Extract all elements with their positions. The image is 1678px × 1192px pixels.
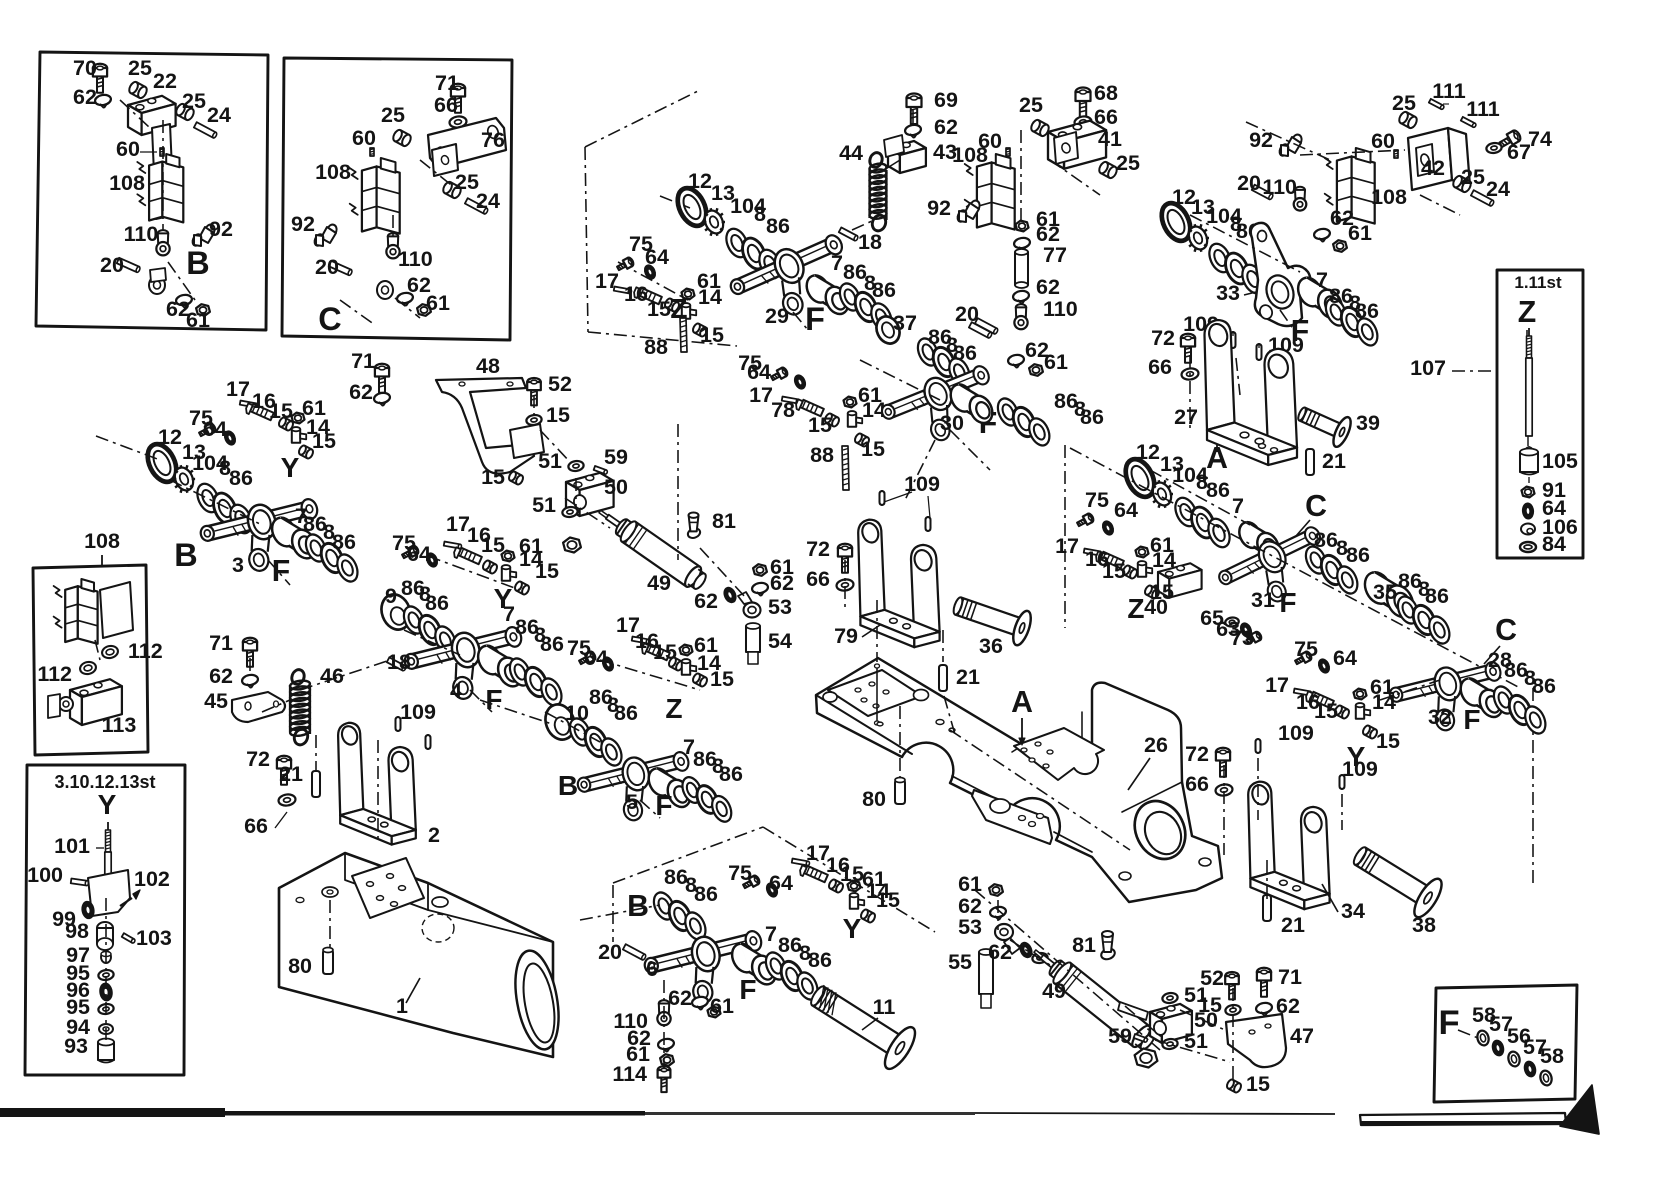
- seal ring: [1539, 1069, 1554, 1086]
- banjo 81: [687, 513, 702, 540]
- bush 15b: [514, 580, 531, 595]
- svg-text:110: 110: [398, 247, 433, 271]
- washer 66b: [1215, 783, 1233, 796]
- link 53: [995, 924, 1013, 940]
- ring 37: [872, 313, 903, 348]
- pin 18: [839, 227, 859, 241]
- svg-text:111: 111: [1432, 79, 1466, 103]
- svg-text:64: 64: [584, 646, 608, 670]
- needle 101: [107, 822, 109, 830]
- svg-text:62: 62: [209, 664, 233, 688]
- elbow 92: [1278, 133, 1303, 157]
- star 13: [1149, 480, 1174, 509]
- U-clamp on 76: [432, 144, 458, 176]
- washer 62: [751, 582, 768, 595]
- svg-text:2: 2: [428, 823, 440, 847]
- washer stack 104-8-86: [722, 225, 752, 260]
- bush 15: [824, 412, 841, 427]
- plate 26 front edge segments: [952, 776, 1012, 807]
- inset box 3.10.12.13st bottom-left: [25, 765, 185, 1075]
- svg-text:21: 21: [956, 665, 980, 689]
- svg-text:64: 64: [1333, 646, 1357, 670]
- clevis 110: [158, 230, 168, 237]
- svg-text:78: 78: [771, 398, 795, 422]
- svg-text:37: 37: [893, 311, 917, 335]
- screw 52: [527, 378, 541, 405]
- bush 15: [482, 559, 499, 574]
- block 40: [1158, 563, 1202, 597]
- block 50: [566, 473, 614, 516]
- washer 51b: [562, 506, 579, 518]
- svg-text:7: 7: [1232, 494, 1244, 518]
- svg-text:17: 17: [595, 269, 619, 293]
- svg-text:74: 74: [1528, 127, 1552, 151]
- needle 107: [1528, 328, 1530, 336]
- inset box C top-left-2: [282, 58, 512, 340]
- svg-text:51: 51: [532, 493, 556, 517]
- svg-text:18: 18: [858, 230, 882, 254]
- svg-text:F: F: [739, 974, 756, 1005]
- rocker arm 29: [726, 232, 850, 322]
- svg-text:54: 54: [768, 629, 792, 653]
- subplate A on 26: [1014, 728, 1104, 780]
- bracket 2: [338, 723, 416, 845]
- svg-text:71: 71: [351, 349, 375, 373]
- svg-text:15: 15: [546, 403, 570, 427]
- svg-text:12: 12: [1136, 440, 1160, 464]
- svg-text:86: 86: [766, 214, 790, 238]
- base 1: [279, 853, 553, 1057]
- screw 60: [1006, 148, 1010, 156]
- block 43: [888, 141, 926, 173]
- screw 74: [1498, 129, 1522, 150]
- washer 64: [1101, 520, 1115, 536]
- inset box F bottom-right: [1434, 985, 1577, 1102]
- svg-text:86: 86: [808, 948, 832, 972]
- svg-text:7: 7: [765, 922, 777, 946]
- svg-text:24: 24: [207, 103, 231, 127]
- svg-text:61: 61: [710, 994, 734, 1018]
- stack 104: [1171, 494, 1201, 529]
- elbow 92: [956, 199, 981, 223]
- svg-text:42: 42: [1421, 156, 1445, 180]
- washer stack 86-8-86: [836, 280, 864, 313]
- svg-text:86: 86: [1080, 405, 1104, 429]
- svg-text:59: 59: [1108, 1024, 1132, 1048]
- svg-text:86: 86: [1314, 528, 1338, 552]
- svg-text:71: 71: [1278, 965, 1302, 989]
- screw 60: [160, 148, 164, 156]
- washer 62c: [396, 292, 413, 305]
- svg-text:51: 51: [538, 449, 562, 473]
- arm 31: [1213, 524, 1329, 610]
- subplate topleft on 26: [828, 670, 922, 716]
- svg-text:76: 76: [481, 128, 505, 152]
- screw 71: [243, 638, 257, 667]
- shaft 11: [802, 973, 921, 1073]
- pin 17: [782, 397, 800, 404]
- svg-text:1: 1: [396, 994, 408, 1018]
- cyl 77: [1015, 252, 1028, 285]
- svg-text:103: 103: [136, 926, 172, 950]
- svg-text:41: 41: [1098, 127, 1122, 151]
- 65 63 73: [1225, 617, 1240, 628]
- svg-text:Y: Y: [98, 789, 117, 820]
- stack 28-86-8-86: [1490, 683, 1518, 716]
- svg-text:112: 112: [128, 639, 163, 663]
- part 97: [101, 951, 111, 963]
- nut 61: [753, 564, 767, 576]
- svg-text:80: 80: [862, 787, 886, 811]
- svg-text:66: 66: [1185, 772, 1209, 796]
- svg-text:73: 73: [1230, 626, 1254, 650]
- part 98: [97, 922, 113, 934]
- svg-text:11: 11: [873, 995, 896, 1019]
- washer 96: [99, 983, 112, 1001]
- washer 62: [904, 124, 921, 137]
- ring 12: [142, 440, 182, 487]
- screw 75: [578, 651, 597, 667]
- bushing 25c: [391, 128, 412, 147]
- block 42: [1408, 128, 1452, 190]
- rod 88b: [842, 446, 849, 490]
- washer 64: [1522, 503, 1533, 519]
- svg-text:62: 62: [1036, 275, 1060, 299]
- screw 69: [907, 94, 922, 125]
- svg-text:12: 12: [158, 425, 182, 449]
- svg-text:A: A: [1011, 686, 1033, 719]
- pins 109: [396, 717, 401, 731]
- nut 61: [196, 304, 210, 316]
- washer 66: [449, 115, 467, 128]
- svg-text:64: 64: [203, 417, 227, 441]
- boss bore ring: [1125, 793, 1194, 868]
- bracket 79: [858, 520, 939, 648]
- svg-text:61: 61: [1348, 221, 1372, 245]
- pin 17: [1084, 549, 1102, 556]
- svg-text:86: 86: [1425, 584, 1449, 608]
- svg-text:49: 49: [647, 571, 671, 595]
- svg-text:17: 17: [1265, 673, 1289, 697]
- svg-text:Z: Z: [1518, 296, 1536, 329]
- washer 99: [81, 901, 94, 919]
- pin 18: [387, 657, 407, 671]
- svg-text:38: 38: [1412, 913, 1436, 937]
- washer 62: [94, 94, 111, 107]
- svg-text:58: 58: [1540, 1044, 1564, 1068]
- stack 86b: [762, 949, 790, 982]
- svg-text:62: 62: [349, 380, 373, 404]
- svg-text:Z: Z: [665, 693, 682, 724]
- roller 7: [644, 765, 675, 800]
- link 53: [744, 603, 761, 618]
- stack 104-8-86: [1205, 240, 1235, 275]
- washer 95b: [98, 1003, 115, 1015]
- arm 5: [572, 739, 692, 828]
- washer 62: [1013, 237, 1030, 250]
- svg-text:15: 15: [647, 297, 671, 321]
- svg-text:20: 20: [100, 253, 124, 277]
- svg-text:55: 55: [948, 950, 972, 974]
- arm 3: [195, 486, 321, 580]
- washer 66: [278, 793, 296, 806]
- bolt 15 under 48 clamp: [508, 470, 525, 485]
- hex nut big: [1135, 1049, 1158, 1068]
- zone dash top middle: [585, 147, 588, 332]
- svg-text:24: 24: [476, 189, 500, 213]
- svg-text:66: 66: [806, 567, 830, 591]
- svg-text:4: 4: [450, 679, 462, 703]
- washer 62b: [1018, 941, 1033, 959]
- svg-text:14: 14: [1372, 690, 1396, 714]
- cluster Y right: [1294, 651, 1313, 667]
- cyl 49b: [1027, 941, 1159, 1054]
- tpiece 14: [1138, 561, 1152, 577]
- washer 67: [1486, 142, 1503, 154]
- tpiece 14: [682, 659, 696, 675]
- clevis 110: [1016, 304, 1026, 311]
- boss front line: [1122, 782, 1182, 812]
- bush 25: [1397, 110, 1418, 129]
- svg-text:92: 92: [1249, 128, 1273, 152]
- svg-text:F: F: [805, 301, 825, 337]
- svg-text:69: 69: [934, 88, 958, 112]
- svg-text:71: 71: [209, 631, 233, 655]
- svg-text:B: B: [174, 537, 197, 573]
- screw 71: [375, 364, 389, 393]
- svg-text:110: 110: [1262, 175, 1297, 199]
- spring 46: [290, 668, 306, 686]
- pin 24b: [465, 198, 489, 214]
- washer pair: [1032, 952, 1049, 964]
- bush 25b: [1097, 160, 1118, 179]
- bush 15: [664, 297, 681, 312]
- clevis 110b: [388, 233, 398, 240]
- washer 51b: [1162, 1038, 1179, 1050]
- bushing 25b: [174, 102, 195, 121]
- svg-text:101: 101: [54, 834, 90, 858]
- svg-text:81: 81: [1072, 933, 1096, 957]
- svg-text:88: 88: [810, 443, 834, 467]
- svg-text:72: 72: [806, 537, 830, 561]
- dash 42 axis: [1246, 122, 1330, 160]
- washer 15: [1225, 1004, 1242, 1016]
- valve 108: [965, 154, 1015, 230]
- svg-text:60: 60: [352, 126, 376, 150]
- bush 15b: [1226, 1078, 1243, 1093]
- cyl 49: [593, 502, 710, 594]
- cup 93: [98, 1042, 114, 1060]
- svg-text:15: 15: [710, 667, 734, 691]
- svg-text:32: 32: [1428, 705, 1452, 729]
- base top plate: [352, 858, 424, 918]
- svg-text:64: 64: [747, 360, 771, 384]
- ring 112a: [101, 644, 119, 659]
- plate 48: [436, 378, 534, 474]
- washer 62: [691, 996, 708, 1009]
- svg-text:21: 21: [1322, 449, 1346, 473]
- svg-text:Y: Y: [494, 583, 513, 614]
- svg-text:64: 64: [1114, 498, 1138, 522]
- elbow 92b: [313, 223, 338, 247]
- washer 64: [601, 656, 615, 672]
- svg-text:F: F: [1463, 704, 1480, 735]
- screw 75: [401, 545, 420, 561]
- pin 17: [632, 637, 650, 644]
- svg-text:75: 75: [1085, 488, 1109, 512]
- svg-text:15: 15: [481, 465, 505, 489]
- svg-text:21: 21: [279, 762, 303, 786]
- screw 72b: [1216, 748, 1230, 777]
- pin 24: [194, 122, 218, 138]
- clamp 16: [794, 398, 823, 419]
- svg-text:29: 29: [765, 304, 789, 328]
- pin 20: [623, 944, 647, 960]
- roller 7: [728, 940, 761, 977]
- svg-text:86: 86: [425, 591, 449, 615]
- nut 61b: [417, 304, 431, 316]
- clamp 16: [632, 286, 661, 307]
- screw 60: [1394, 150, 1398, 158]
- screw 71b: [1257, 968, 1271, 997]
- tpiece 14: [682, 303, 696, 319]
- bush 15: [668, 656, 685, 671]
- stack 86b: [679, 774, 706, 806]
- pin 80: [895, 780, 905, 804]
- svg-text:113: 113: [102, 713, 137, 737]
- roller 7: [1294, 274, 1327, 311]
- bushing 25: [127, 80, 148, 99]
- svg-text:15: 15: [312, 429, 336, 453]
- svg-text:15: 15: [535, 559, 559, 583]
- svg-text:22: 22: [153, 69, 177, 93]
- svg-text:48: 48: [476, 354, 500, 378]
- nut 91: [1522, 487, 1535, 498]
- washer 95a: [98, 969, 115, 981]
- svg-text:66: 66: [434, 93, 458, 117]
- arm 33 - vertical style: [1251, 223, 1311, 326]
- bushing 25d: [441, 180, 462, 199]
- svg-text:98: 98: [65, 919, 89, 943]
- washer 51: [568, 460, 585, 472]
- screw 72: [277, 756, 291, 785]
- svg-text:109: 109: [1278, 721, 1314, 745]
- spring 44: [868, 151, 884, 169]
- svg-text:35: 35: [1373, 580, 1397, 604]
- svg-text:67: 67: [1507, 140, 1531, 164]
- svg-text:80: 80: [288, 954, 312, 978]
- svg-text:66: 66: [244, 814, 268, 838]
- inset box 1.11st right: [1497, 270, 1583, 558]
- svg-text:25: 25: [1392, 91, 1416, 115]
- svg-text:14: 14: [1152, 548, 1176, 572]
- ring 12: [1120, 455, 1160, 502]
- roller 7b: [946, 381, 977, 416]
- dash bottom 47 axis: [1155, 1040, 1230, 1062]
- clamp 16: [452, 546, 481, 567]
- pin 38: [1345, 835, 1446, 921]
- washer 106: [1521, 524, 1535, 535]
- svg-text:109: 109: [400, 700, 436, 724]
- svg-text:Y: Y: [1347, 741, 1366, 772]
- svg-text:81: 81: [712, 509, 736, 533]
- svg-text:61: 61: [186, 308, 210, 332]
- bush 15c: [692, 672, 709, 687]
- svg-text:108: 108: [1371, 185, 1407, 209]
- bracket 27: [1205, 320, 1298, 465]
- svg-text:17: 17: [1055, 534, 1079, 558]
- stack 86: [650, 889, 678, 922]
- washer 84: [1520, 542, 1536, 552]
- plate holes: [936, 720, 944, 725]
- page curl triangle: [1560, 1085, 1599, 1134]
- washer stack2: [914, 335, 942, 368]
- nut 61: [1016, 221, 1029, 232]
- svg-text:61: 61: [426, 291, 450, 315]
- pins 109: [1231, 332, 1236, 348]
- stack 104: [193, 480, 223, 515]
- svg-text:62: 62: [668, 986, 692, 1010]
- svg-text:62: 62: [988, 940, 1012, 964]
- svg-text:31: 31: [1251, 588, 1275, 612]
- washer 62b: [1012, 290, 1029, 303]
- bush 15b: [692, 322, 709, 337]
- svg-text:64: 64: [407, 542, 431, 566]
- washer 10: [541, 700, 580, 743]
- svg-text:15: 15: [1246, 1072, 1270, 1096]
- svg-text:Z: Z: [1127, 593, 1144, 624]
- elbow 92: [191, 223, 216, 247]
- svg-text:62: 62: [73, 85, 97, 109]
- screw 114: [658, 1066, 671, 1092]
- dash zone arm6 left border: [612, 885, 614, 942]
- washer 62: [241, 674, 258, 687]
- svg-text:72: 72: [1151, 326, 1175, 350]
- stack 86: [302, 531, 330, 564]
- roller 35: [1360, 568, 1396, 608]
- ring 112b: [79, 660, 97, 675]
- pin 39: [1293, 398, 1354, 449]
- svg-text:105: 105: [1542, 449, 1578, 473]
- svg-text:86: 86: [1355, 299, 1379, 323]
- bush 15b: [1144, 584, 1161, 599]
- seal ring: [1476, 1029, 1491, 1046]
- svg-text:92: 92: [209, 217, 233, 241]
- washer 62: [989, 906, 1006, 919]
- svg-text:25: 25: [381, 103, 405, 127]
- pin 17: [444, 542, 462, 549]
- svg-text:20: 20: [1237, 171, 1261, 195]
- svg-text:7: 7: [1316, 268, 1328, 292]
- arm 4: [399, 614, 525, 708]
- svg-text:110: 110: [1043, 297, 1078, 321]
- link 110: [659, 1000, 669, 1007]
- pin 20: [117, 258, 141, 273]
- banjo 81b: [1100, 931, 1117, 961]
- inset box B top-left: [36, 52, 268, 330]
- svg-text:114: 114: [612, 1062, 647, 1086]
- svg-text:64: 64: [645, 245, 669, 269]
- stack 86b: [506, 655, 534, 688]
- pin 80: [323, 950, 333, 974]
- washer 62: [373, 392, 390, 405]
- screw 75: [616, 257, 635, 273]
- svg-text:15: 15: [700, 323, 724, 347]
- roller 7: [802, 272, 833, 307]
- block 47: [1226, 1014, 1286, 1067]
- svg-text:72: 72: [1185, 742, 1209, 766]
- screw 75: [1076, 513, 1095, 529]
